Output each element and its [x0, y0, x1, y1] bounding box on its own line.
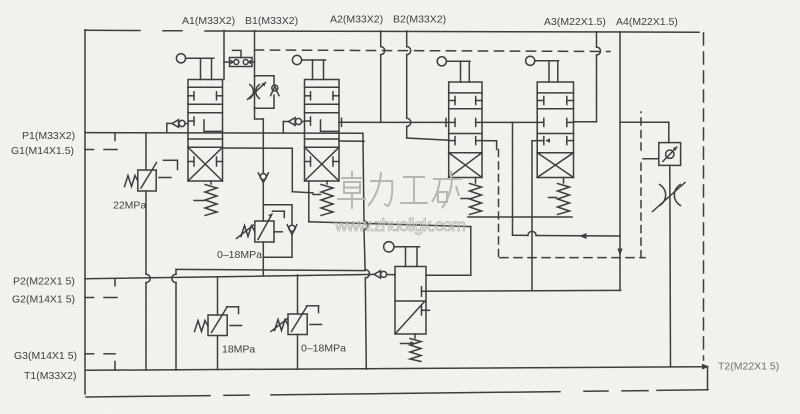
on-off valve (2-position) body [395, 267, 430, 335]
V2 drain link to gallery [308, 181, 310, 222]
pilot dashes 0-18MPa mid [273, 211, 285, 232]
top border [85, 30, 699, 32]
pilot dashes 0-18MPa bottom [307, 306, 322, 325]
port line A3 with break [574, 32, 601, 122]
watermark chinese characters (drawn strokes) [337, 171, 462, 209]
inlet check valve V2 [283, 118, 304, 132]
relief valve 22MPa (main, on P1) [125, 133, 157, 370]
shuttle valve between A1 and B1 [224, 50, 255, 66]
bypass loop with check (mid relief) [263, 205, 297, 257]
relief valve 0-18MPa (on P2) [271, 275, 307, 369]
port line B2 with breaks [407, 31, 449, 140]
carry-over line (P to lower section) with jump crossings [363, 133, 370, 369]
directional valve V1 body [188, 80, 223, 182]
V1 B-port drain link [223, 148, 314, 193]
P2 supply bus [85, 274, 375, 285]
work port bus valve3-valve4 with center drop [482, 122, 537, 235]
port line B1 [254, 31, 256, 76]
directional valve V4 body [537, 82, 573, 178]
check valve on pilot relief feed [258, 173, 268, 221]
knob actuator (on-off valve) [384, 242, 420, 267]
drain gallery (valve2 drain to on-off valve) [309, 222, 471, 275]
port line A2 with break over pilot line [381, 31, 385, 122]
directional valve V3 body [449, 82, 482, 178]
directional valve V2 body [305, 80, 340, 182]
lever actuator V2 [292, 55, 325, 79]
left border [84, 30, 86, 394]
port line A1 [223, 31, 225, 80]
pilot relief valve 0-18MPa (mid) [237, 214, 275, 275]
right border (dashed) [703, 33, 705, 360]
pilot line (dashed, top) [255, 50, 611, 52]
pilot operated check (square) [659, 143, 681, 166]
pilot line from ports to on-off valve [513, 231, 621, 239]
inlet check valve V1 [167, 120, 188, 132]
P1 supply bus [85, 133, 363, 141]
V4 lower-left port drop [532, 141, 537, 291]
work port bus valve2-valve3 [339, 118, 449, 126]
pilot dash to check square [643, 158, 658, 160]
bypass throttle with check on B1 line [248, 76, 280, 109]
V2 B-port link to carry-over [339, 140, 364, 142]
pilot gallery dashed riser (left) [498, 150, 500, 258]
lever actuator V4 [526, 56, 559, 82]
spring drain gallery V3-V4 [468, 216, 572, 218]
pilot dashes 22MPa [159, 160, 178, 177]
check valve at P2 inlet of on-off valve [374, 271, 395, 278]
on-off valve outlet bus to pilot group [422, 289, 621, 292]
V3 lower-right port drop (to pilot gallery) [482, 141, 497, 150]
G2 gauge port stub (dashed) [85, 297, 117, 299]
return spring V3 [461, 178, 482, 215]
watermark url [334, 215, 466, 235]
lever actuator V3 [437, 57, 470, 82]
pilot gallery dashed box bottom [500, 257, 645, 259]
port line A4 / pilot supply drop [617, 32, 668, 291]
lever actuator V1 [176, 54, 213, 80]
spring with arrow (on-off valve) [401, 334, 422, 362]
B1 line lower section to pilot relief [255, 108, 264, 172]
return spring V2 [313, 181, 333, 216]
G3 gauge port stub (dashed) [85, 353, 115, 355]
G1 gauge port stub (dashed) [85, 149, 117, 151]
bottom chain boundary [86, 367, 708, 398]
return spring V4 [549, 178, 570, 215]
pilot dashes 18MPa [227, 307, 242, 326]
T1 return bus with arrow to T2 [86, 362, 709, 371]
variable throttle (right) [653, 165, 686, 366]
return spring V1 [194, 181, 217, 216]
relief valve 18MPa (on P2) [195, 277, 228, 370]
drain line to tank (left) [172, 269, 365, 370]
pilot gallery dashed riser (right) [640, 112, 642, 258]
